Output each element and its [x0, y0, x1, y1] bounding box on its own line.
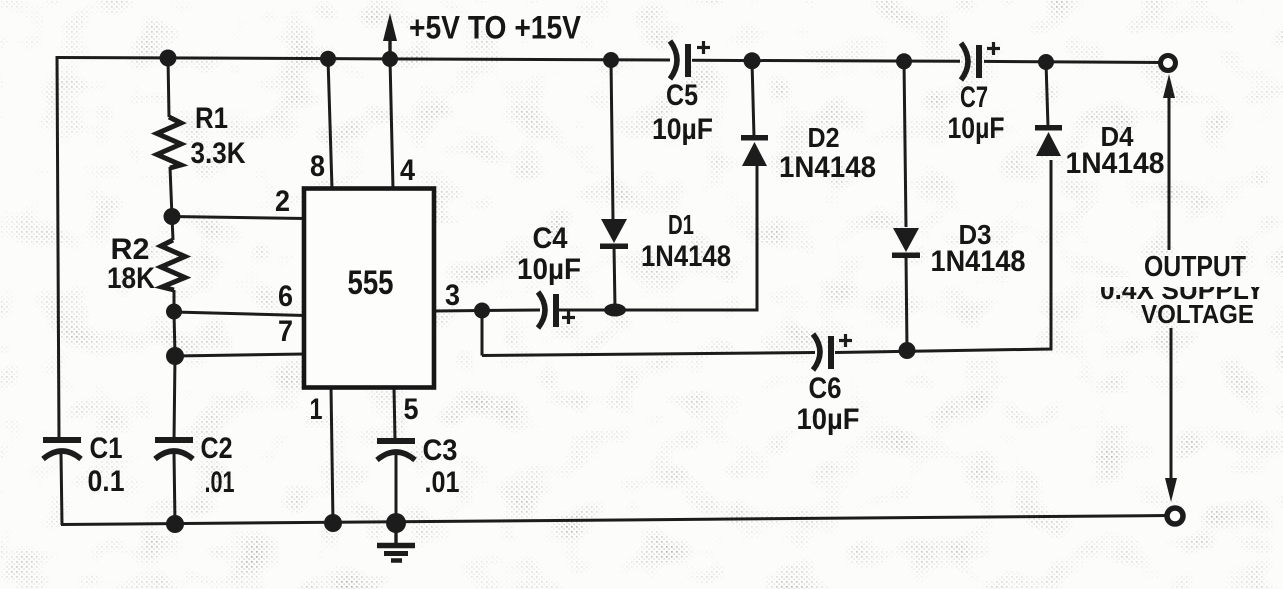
wire: pin2 node to R2 top — [172, 217, 173, 240]
diode D1 symbol — [600, 219, 628, 249]
svg-text:10µF: 10µF — [797, 403, 860, 436]
wire: C4 to D1 bottom to D2 bottom corner — [559, 165, 757, 310]
wire: C6 right plate to D4 bottom corner — [835, 160, 1051, 353]
svg-text:VOLTAGE: VOLTAGE — [1141, 299, 1254, 329]
diode D2 symbol — [741, 135, 768, 166]
wire: D1 bottom lead to node — [614, 246, 615, 308]
wire: D4 top lead from rail — [1046, 62, 1048, 127]
wire: C2 bottom lead to bottom rail — [174, 453, 175, 524]
wire: pin3 node to C4 — [482, 309, 540, 313]
wire: C3 bottom lead to ground node — [395, 453, 398, 523]
wire: D2 top lead from rail — [752, 61, 754, 137]
wire: top supply rail middle segment — [692, 60, 960, 61]
svg-text:6: 6 — [278, 280, 293, 313]
smudge band over line 2 — [1090, 277, 1283, 287]
output measurement arrow upper — [1163, 74, 1175, 250]
svg-text:C4: C4 — [533, 222, 568, 255]
svg-text:1N4148: 1N4148 — [641, 240, 731, 273]
junction node C2 bottom — [166, 515, 184, 533]
svg-text:10µF: 10µF — [652, 113, 713, 146]
svg-text:18K: 18K — [107, 262, 155, 295]
svg-text:D1: D1 — [668, 209, 694, 240]
junction node pin1 bottom — [324, 514, 342, 532]
svg-text:.01: .01 — [425, 466, 460, 499]
junction node pin7 — [166, 347, 184, 365]
svg-text:C7: C7 — [960, 81, 988, 114]
junction node on rail at R1 — [160, 50, 177, 67]
svg-text:3: 3 — [445, 279, 460, 312]
svg-text:1N4148: 1N4148 — [1066, 147, 1165, 180]
svg-text:10µF: 10µF — [948, 112, 1005, 145]
wire: pin 7 connection — [175, 354, 305, 356]
svg-text:R1: R1 — [195, 102, 228, 135]
junction node on rail at D1 — [603, 52, 619, 68]
wire: pin 2 connection — [172, 217, 305, 219]
svg-text:8: 8 — [310, 150, 325, 183]
junction node on rail at pin 4 / supply — [382, 51, 398, 67]
svg-text:1N4148: 1N4148 — [779, 151, 876, 184]
wire: pin3 node drop for C6 branch — [481, 311, 484, 356]
wire: top supply rail left segment — [57, 58, 670, 61]
svg-text:7: 7 — [278, 315, 293, 348]
wire: pin7 node down to C2 — [174, 356, 175, 441]
wire: R column rail to R1 top — [168, 57, 169, 117]
svg-text:.01: .01 — [205, 466, 235, 499]
555 IC U1 body — [304, 189, 434, 388]
wire: C1 bottom lead to bottom rail — [61, 453, 62, 525]
svg-text:1N4148: 1N4148 — [931, 245, 1026, 278]
resistor R1 — [157, 117, 181, 168]
wire: D1 top lead from rail — [611, 60, 613, 220]
svg-text:555: 555 — [348, 264, 394, 302]
svg-text:2: 2 — [275, 185, 290, 218]
svg-text:C1: C1 — [90, 432, 123, 465]
junction node on rail at D2 — [744, 52, 761, 69]
wire: pin 5 down to C3 — [394, 387, 395, 441]
capacitor C6 symbol (polarized) — [813, 334, 852, 370]
capacitor C4 symbol (polarized) — [538, 292, 575, 328]
capacitor C5 symbol (polarized) — [670, 41, 710, 79]
capacitor C2 symbol — [155, 440, 193, 459]
svg-text:C3: C3 — [423, 434, 458, 467]
junction node on rail at pin 8 — [320, 51, 336, 67]
wire: R1 bottom to pin2 node — [170, 167, 172, 217]
svg-text:1: 1 — [310, 393, 323, 426]
wire: pin 1 down to bottom rail — [331, 387, 333, 523]
output measurement arrow lower — [1165, 328, 1177, 502]
wire: pin 6 connection — [174, 312, 305, 316]
svg-text:10µF: 10µF — [517, 253, 581, 286]
svg-text:3.3K: 3.3K — [191, 137, 246, 170]
ground symbol — [377, 523, 415, 561]
diode D3 symbol — [892, 228, 920, 258]
power supply arrow — [383, 13, 397, 60]
wire: pin 3 stub to node — [434, 309, 482, 313]
wire: R2 bottom to pin6 node — [173, 290, 176, 312]
output terminal top — [1161, 56, 1176, 71]
junction node R2/pin6 — [166, 304, 182, 320]
wire: pin 4 to supply rail — [390, 59, 393, 189]
diode D4 symbol — [1035, 125, 1062, 156]
junction node D1 bottom — [604, 304, 626, 317]
junction node on rail at D3 — [896, 53, 912, 69]
svg-text:+5V TO +15V: +5V TO +15V — [409, 10, 582, 46]
svg-text:D2: D2 — [808, 122, 840, 153]
junction node D3 bottom / C6 wire — [899, 342, 916, 359]
capacitor C1 symbol — [43, 440, 81, 459]
svg-text:4: 4 — [400, 154, 415, 187]
wire: D3 top lead from rail — [904, 61, 906, 227]
junction node pin3 — [474, 303, 490, 319]
junction node on rail at D4 — [1038, 54, 1054, 70]
wire: pin3 drop to C6 left plate — [482, 353, 815, 356]
wire: pin6 node to pin7 node — [174, 312, 175, 356]
svg-text:5: 5 — [404, 393, 419, 426]
wire: bottom ground rail — [61, 516, 1168, 525]
wire: left edge vertical down to C1 — [57, 56, 59, 440]
wire: top supply rail right segment — [984, 61, 1161, 62]
svg-text:C6: C6 — [809, 372, 842, 405]
svg-text:C5: C5 — [666, 79, 698, 112]
wire: D3 bottom lead to C6 wire node — [906, 255, 907, 350]
wire: pin 8 to supply rail — [328, 59, 332, 190]
svg-text:C2: C2 — [201, 432, 233, 465]
junction node ground — [386, 513, 406, 533]
capacitor C3 symbol — [377, 441, 415, 460]
junction node R1/R2/pin2 — [164, 208, 181, 225]
resistor R2 — [161, 240, 185, 290]
output terminal bottom — [1167, 508, 1183, 524]
svg-text:0.1: 0.1 — [88, 465, 125, 498]
capacitor C7 symbol (polarized) — [961, 42, 1000, 80]
